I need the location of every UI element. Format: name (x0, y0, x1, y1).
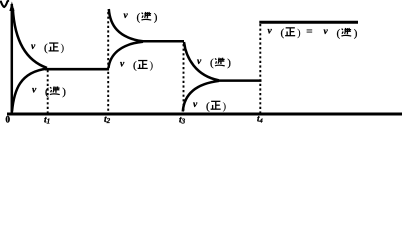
svg-text:t3: t3 (179, 116, 186, 126)
dashed line t4 (259, 24, 261, 113)
dashed line t1 (47, 70, 49, 113)
curve v(正) segment 2 rise (109, 42, 144, 68)
svg-text:0: 0 (6, 115, 11, 125)
dashed line t2 (107, 12, 109, 113)
dashed line t3 (183, 44, 185, 113)
v axis (11, 4, 14, 114)
curve v(逆) segment 3 decay (184, 42, 219, 80)
label v(正) segment 3 (193, 100, 227, 112)
flat level t1-t2 wire (45, 68, 109, 71)
flat level t3-t4 wire (218, 79, 262, 82)
label v(逆) segment 1 (32, 86, 66, 98)
v axis arrowhead (9, 2, 14, 12)
flat level after t4 wire (259, 21, 358, 24)
flat level t2-t3 wire (141, 40, 184, 43)
curve v(逆) segment 2 decay (109, 9, 143, 41)
label v(正) segment 2 (120, 59, 154, 71)
label v(逆) segment 3 (197, 57, 231, 69)
curve v(正) segment 1 decay (13, 9, 47, 68)
label v(正) segment 1 (31, 42, 65, 54)
svg-text:t2: t2 (104, 115, 111, 125)
curve v(正) segment 3 rise (183, 81, 219, 112)
svg-text:t1: t1 (44, 116, 50, 126)
v axis label (1, 1, 8, 7)
label v(正) = v(逆) after t4 (268, 27, 302, 39)
time axis (7, 113, 402, 116)
curve v(逆) segment 1 rise (12, 69, 47, 112)
svg-text:=: = (306, 24, 313, 38)
label v(逆) segment 2 (124, 11, 158, 23)
